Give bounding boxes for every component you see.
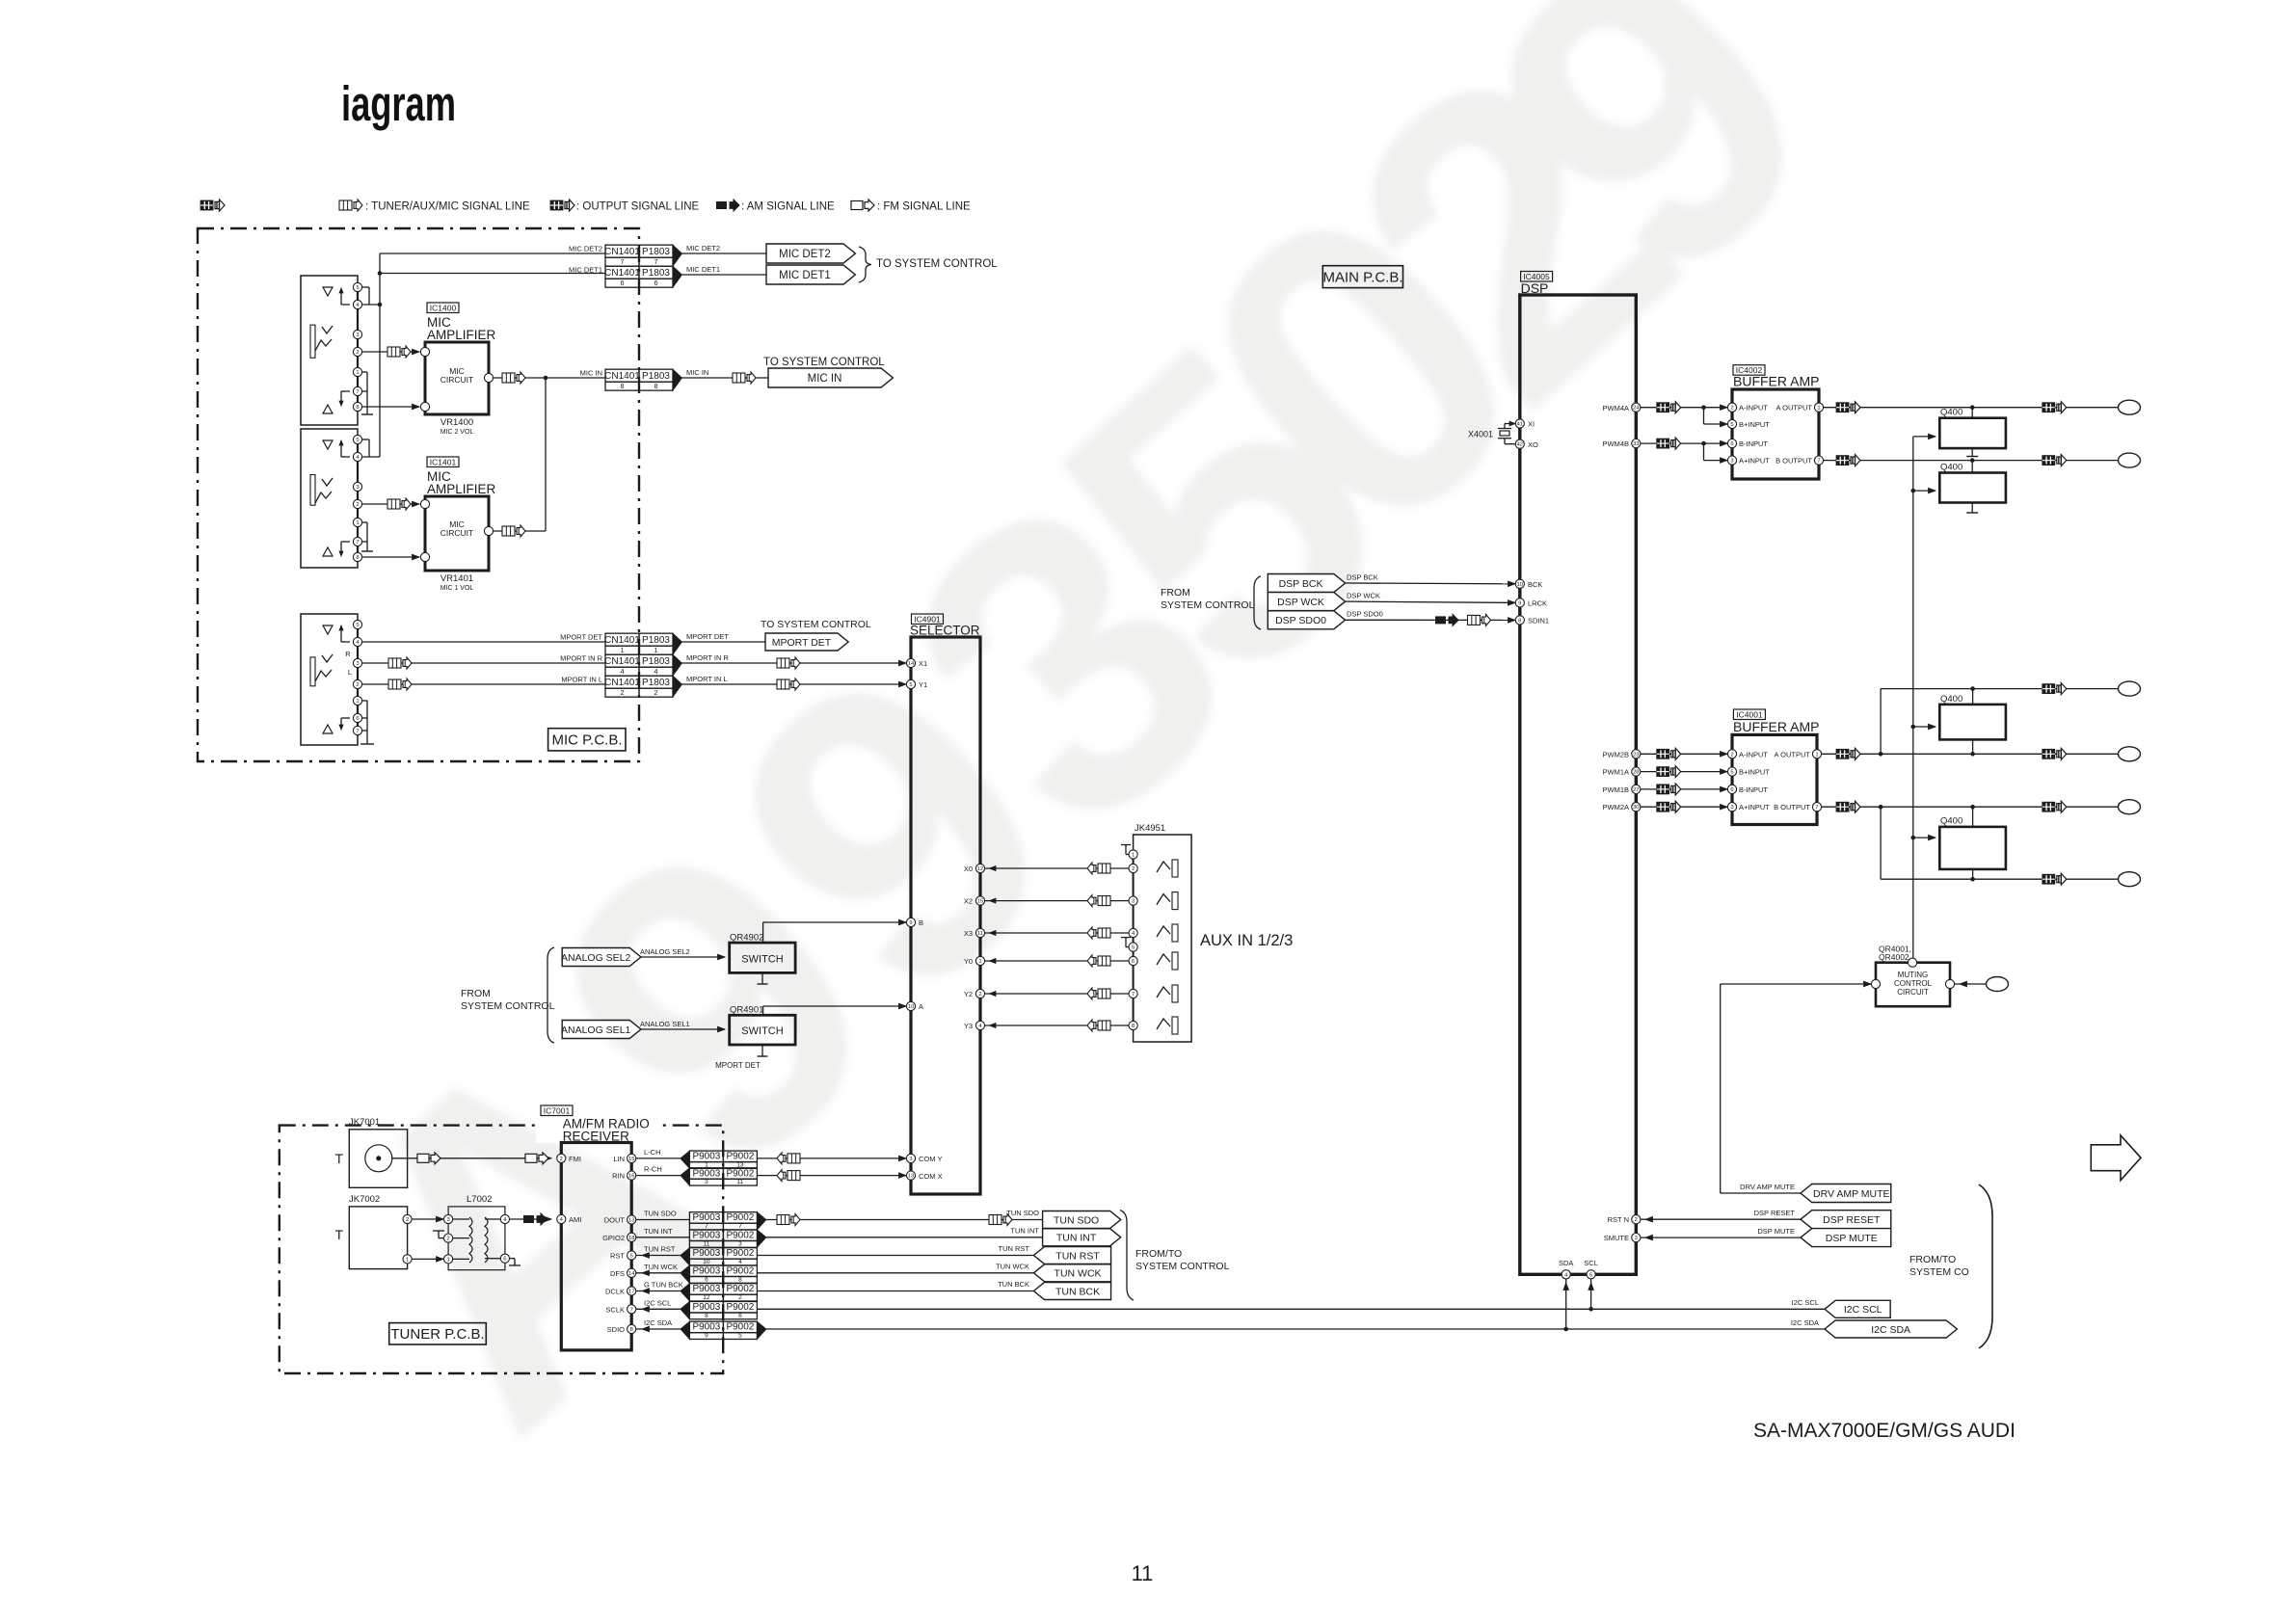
svg-text:DSP BCK: DSP BCK — [1279, 578, 1323, 590]
svg-text:2: 2 — [1730, 752, 1733, 758]
svg-text:14: 14 — [908, 661, 915, 667]
IC7001 title mask — [536, 1101, 661, 1143]
svg-text:A-INPUT: A-INPUT — [1739, 404, 1768, 412]
svg-text:DSP MUTE: DSP MUTE — [1757, 1227, 1795, 1236]
svg-text:RST: RST — [610, 1252, 625, 1261]
svg-text:MPORT DET: MPORT DET — [686, 632, 729, 641]
tag DSP RESET — [1801, 1211, 1891, 1229]
svg-text:6: 6 — [356, 716, 359, 722]
svg-text:MIC DET1: MIC DET1 — [779, 270, 831, 281]
DSP pin PWM1B — [1632, 785, 1641, 793]
svg-text:CIRCUIT: CIRCUIT — [1897, 988, 1929, 997]
wire I2C SDA long — [766, 1328, 1825, 1330]
svg-text:DSP SDO0: DSP SDO0 — [1275, 615, 1326, 626]
svg-text:LRCK: LRCK — [1528, 599, 1547, 608]
svg-text:41: 41 — [1517, 422, 1523, 428]
svg-text:P1803: P1803 — [642, 656, 670, 667]
svg-text:1: 1 — [1817, 406, 1820, 412]
svg-text:6: 6 — [621, 279, 625, 287]
svg-text:FMI: FMI — [569, 1155, 581, 1163]
svg-text:PWM2A: PWM2A — [1602, 803, 1629, 811]
connector CN1401/P1803 MPORT DET — [605, 633, 639, 646]
tag MIC DET1 — [766, 265, 855, 284]
svg-text:1: 1 — [356, 370, 359, 376]
wire I2C SCL long — [757, 1308, 1825, 1310]
wire ANALOG SEL2 — [641, 956, 725, 958]
svg-text:DSP RESET: DSP RESET — [1754, 1209, 1796, 1217]
tag DRV AMP MUTE — [1801, 1184, 1891, 1203]
terminal oval lower 3 — [2119, 800, 2141, 814]
svg-text:TUN BCK: TUN BCK — [998, 1280, 1029, 1289]
terminal oval upper A — [2119, 400, 2141, 414]
IC4001 pin B OUTPUT — [1812, 803, 1821, 811]
tag MIC DET2 — [766, 244, 855, 263]
svg-text:Y2: Y2 — [964, 990, 973, 998]
svg-text:CONTROL: CONTROL — [1894, 979, 1933, 988]
svg-text:4: 4 — [738, 1259, 742, 1265]
wire TUN WCK to tag — [757, 1272, 1033, 1274]
connector P9003/P9002 L-CH — [689, 1151, 723, 1162]
svg-text:MIC DET1: MIC DET1 — [686, 265, 720, 274]
svg-text:Y0: Y0 — [964, 957, 973, 966]
svg-text:Y3: Y3 — [964, 1022, 973, 1030]
Q400 block2 ground — [1971, 503, 1973, 514]
svg-text:X3: X3 — [964, 929, 973, 938]
svg-text:R: R — [345, 650, 351, 658]
svg-text:5: 5 — [1730, 770, 1733, 776]
svg-text:10: 10 — [703, 1259, 710, 1265]
svg-text:SMUTE: SMUTE — [1604, 1234, 1629, 1242]
DSP pin PWM4A — [1632, 403, 1641, 412]
svg-text:TUN SDO: TUN SDO — [644, 1210, 677, 1218]
svg-text:AUX IN 1/2/3: AUX IN 1/2/3 — [1200, 932, 1293, 949]
svg-text:XI: XI — [1528, 420, 1535, 429]
svg-text:SYSTEM CONTROL: SYSTEM CONTROL — [461, 1000, 555, 1012]
svg-text:ANALOG SEL2: ANALOG SEL2 — [561, 952, 631, 964]
svg-text:P9003: P9003 — [692, 1168, 720, 1179]
MIC P.C.B. dashed boundary — [198, 228, 639, 761]
svg-text:FROM/TO: FROM/TO — [1135, 1248, 1182, 1260]
svg-text:A: A — [919, 1002, 923, 1011]
svg-text:TUN INT: TUN INT — [1010, 1227, 1039, 1236]
svg-text:CN1401: CN1401 — [604, 678, 640, 688]
svg-text:5: 5 — [909, 682, 912, 688]
wire MPORT IN L from jack — [362, 683, 605, 685]
wire SDA to I2C SDA line — [1565, 1279, 1567, 1329]
svg-text:7: 7 — [630, 1307, 633, 1313]
svg-text:1: 1 — [356, 699, 359, 705]
IC4002 pin B+INPUT — [1727, 419, 1736, 428]
svg-text:14: 14 — [628, 1271, 635, 1277]
svg-text:AMPLIFIER: AMPLIFIER — [427, 482, 496, 496]
svg-text:7: 7 — [654, 257, 658, 266]
svg-text:2: 2 — [1730, 406, 1733, 412]
svg-text:CN1401: CN1401 — [604, 247, 640, 257]
Q400 block4 input — [1911, 836, 1916, 840]
muting right oval terminal — [1987, 977, 2009, 992]
svg-text:MUTING: MUTING — [1898, 971, 1929, 979]
svg-text:TUN RST: TUN RST — [999, 1244, 1030, 1253]
svg-text:P9003: P9003 — [692, 1248, 720, 1259]
wire A OUTPUT upper — [1824, 407, 2119, 409]
svg-text:IC7001: IC7001 — [544, 1106, 571, 1116]
TUNER P.C.B. label — [389, 1323, 487, 1344]
svg-text:B+INPUT: B+INPUT — [1739, 768, 1770, 777]
wire R-CH pin to table — [636, 1175, 681, 1177]
wire MPORT IN R from jack — [362, 662, 605, 664]
svg-text:15: 15 — [977, 899, 983, 905]
svg-text:FROM: FROM — [461, 988, 491, 999]
svg-text:IC4001: IC4001 — [1736, 710, 1763, 720]
IC4001 BUFFER AMP block — [1732, 734, 1817, 824]
svg-text:I2C SDA: I2C SDA — [1791, 1318, 1819, 1327]
svg-text:MPORT DET: MPORT DET — [715, 1061, 761, 1070]
svg-text:AMI: AMI — [569, 1215, 581, 1224]
svg-text:6: 6 — [705, 1276, 708, 1283]
svg-text:A OUTPUT: A OUTPUT — [1775, 404, 1812, 412]
svg-text:L: L — [348, 668, 352, 677]
svg-text:A OUTPUT: A OUTPUT — [1774, 750, 1810, 758]
svg-text:T: T — [334, 1151, 343, 1166]
wire TUN BCK to tag — [757, 1290, 1033, 1292]
svg-text:1: 1 — [1132, 853, 1135, 859]
IC7001 pin DOUT — [627, 1215, 636, 1224]
svg-text:IC1400: IC1400 — [430, 304, 457, 313]
IC4002 pin A+INPUT — [1727, 456, 1736, 465]
selector pin COM X — [906, 1171, 915, 1180]
wire Y0 to aux jack — [985, 960, 1133, 962]
wire Y3 to aux jack — [985, 1024, 1133, 1026]
svg-text:28: 28 — [1633, 770, 1639, 776]
svg-text:P9002: P9002 — [726, 1265, 754, 1276]
svg-text:PWM2B: PWM2B — [1602, 750, 1629, 758]
QR4901 ground — [761, 1045, 763, 1056]
svg-text:CN1401: CN1401 — [604, 635, 640, 646]
MIC P.C.B. label — [548, 729, 626, 751]
DSP pin PWM1A — [1632, 767, 1641, 776]
IC4901 SELECTOR block — [911, 637, 980, 1194]
svg-text:P9002: P9002 — [726, 1302, 754, 1313]
svg-text:IC1401: IC1401 — [430, 458, 457, 467]
watermark A9935029 — [245, 0, 1898, 1517]
svg-text:2: 2 — [621, 688, 625, 697]
svg-text:A+INPUT: A+INPUT — [1739, 803, 1770, 811]
svg-text:27: 27 — [1633, 787, 1639, 793]
svg-text:MPORT IN R: MPORT IN R — [686, 653, 729, 662]
connector CN1401/P1803 MPORT IN R — [605, 654, 639, 667]
selector pin X2 — [975, 896, 984, 905]
DSP pin SMUTE — [1632, 1234, 1641, 1242]
svg-text:JK7001: JK7001 — [349, 1117, 380, 1128]
svg-text:TO SYSTEM CONTROL: TO SYSTEM CONTROL — [763, 357, 885, 368]
svg-text:10: 10 — [908, 1004, 914, 1010]
tag DSP MUTE — [1801, 1229, 1891, 1247]
svg-text:5: 5 — [1589, 1272, 1592, 1278]
Q400 block3 input — [1911, 725, 1916, 730]
connector CN1401/P1803 MIC DET2 — [605, 245, 639, 257]
svg-text:9: 9 — [705, 1332, 708, 1339]
svg-text:SDA: SDA — [1559, 1259, 1573, 1267]
svg-text:MIC DET1: MIC DET1 — [569, 266, 602, 275]
svg-text:SYSTEM CONTROL: SYSTEM CONTROL — [1161, 599, 1255, 611]
svg-text:1: 1 — [978, 959, 981, 965]
svg-text:Q400: Q400 — [1940, 408, 1962, 418]
tag I2C SCL — [1825, 1300, 1890, 1317]
svg-text:iagram: iagram — [341, 76, 456, 131]
svg-text:DRV AMP MUTE: DRV AMP MUTE — [1813, 1188, 1890, 1200]
svg-text:2: 2 — [560, 1157, 563, 1162]
svg-text:6: 6 — [1132, 959, 1135, 965]
svg-text:P1803: P1803 — [642, 268, 670, 279]
legend AM signal line — [716, 200, 739, 211]
svg-text:11: 11 — [1132, 1561, 1154, 1585]
svg-text:FROM/TO: FROM/TO — [1909, 1254, 1956, 1265]
svg-text:TUN RST: TUN RST — [644, 1245, 676, 1254]
svg-text:33: 33 — [1633, 441, 1639, 447]
svg-text:QR4002: QR4002 — [1879, 952, 1909, 962]
svg-text:42: 42 — [1517, 442, 1523, 448]
svg-text:SYSTEM CONTROL: SYSTEM CONTROL — [1135, 1261, 1230, 1272]
IC4002 BUFFER AMP block — [1732, 389, 1819, 479]
wire A OUTPUT lower — [1822, 753, 2119, 755]
svg-text:A-INPUT: A-INPUT — [1739, 750, 1768, 758]
bracket right tags — [1979, 1184, 1992, 1348]
svg-text:P9002: P9002 — [726, 1212, 754, 1223]
svg-text:DFS: DFS — [610, 1269, 625, 1278]
wire jack2 pin8 to IC1401 — [362, 556, 419, 558]
svg-text:8: 8 — [654, 382, 658, 390]
svg-text:TUN SDO: TUN SDO — [1006, 1209, 1039, 1217]
svg-text:4: 4 — [654, 667, 658, 676]
svg-text:7: 7 — [356, 389, 359, 395]
selector pin Y3 — [975, 1021, 984, 1029]
tag TUN BCK — [1033, 1283, 1110, 1300]
svg-text:3: 3 — [446, 1217, 449, 1223]
svg-text:3: 3 — [1730, 805, 1733, 811]
svg-text:5: 5 — [1730, 422, 1733, 428]
DSP pin LRCK — [1515, 599, 1524, 607]
svg-text:7: 7 — [1132, 992, 1135, 998]
MUTING CONTROL CIRCUIT block — [1876, 963, 1950, 1006]
wire muting left input — [1721, 983, 1871, 985]
svg-text:13: 13 — [628, 1218, 634, 1224]
IC4001 pin A+INPUT — [1727, 803, 1736, 811]
legend tuner/aux/mic signal line — [339, 200, 362, 211]
wire FM antenna to FMI — [392, 1157, 551, 1159]
QR4902 ground — [761, 972, 763, 984]
L7002 pin6 ground — [510, 1258, 515, 1260]
svg-text:23: 23 — [1633, 752, 1639, 758]
svg-text:12: 12 — [703, 1294, 710, 1301]
svg-text:2: 2 — [1635, 1217, 1638, 1223]
svg-text:8: 8 — [738, 1276, 742, 1283]
svg-text:LIN: LIN — [613, 1155, 625, 1163]
svg-text:PWM4A: PWM4A — [1602, 404, 1629, 412]
wire L-CH pin to table — [636, 1157, 681, 1159]
svg-text:SDIO: SDIO — [607, 1325, 626, 1334]
svg-text:P9002: P9002 — [726, 1284, 754, 1294]
IC4002 pin A-INPUT — [1727, 403, 1736, 412]
svg-text:JK7002: JK7002 — [349, 1194, 380, 1205]
IC7001 pin AMI — [557, 1214, 566, 1223]
connector P9003/P9002 TUN RST — [689, 1248, 723, 1260]
wire PWM to IC4001 — [1641, 788, 1727, 790]
terminal oval lower 2 — [2119, 747, 2141, 761]
svg-text:P9003: P9003 — [692, 1152, 720, 1162]
mic jack J1 ground — [362, 371, 367, 373]
svg-text:P9002: P9002 — [726, 1248, 754, 1259]
legend output signal line — [550, 200, 574, 211]
svg-text:SWITCH: SWITCH — [741, 1025, 783, 1037]
svg-text:TUN SDO: TUN SDO — [1054, 1214, 1099, 1226]
svg-text:R-CH: R-CH — [644, 1165, 662, 1174]
svg-text:6: 6 — [1730, 441, 1733, 447]
connector CN1401/P1803 MPORT IN L — [605, 676, 639, 688]
svg-text:3: 3 — [356, 485, 359, 491]
mic jack J2 ground — [362, 521, 367, 523]
svg-text:P9003: P9003 — [692, 1284, 720, 1294]
svg-text:MPORT IN L: MPORT IN L — [686, 675, 728, 683]
selector pin B — [906, 918, 915, 926]
tag I2C SDA — [1825, 1320, 1957, 1338]
svg-text:TUN INT: TUN INT — [1056, 1233, 1097, 1244]
svg-text:TUN WCK: TUN WCK — [1055, 1268, 1102, 1280]
IC7001 pin FMI — [557, 1154, 566, 1162]
svg-text:8: 8 — [356, 555, 359, 561]
terminal oval lower 4 — [2119, 872, 2141, 887]
svg-text:I2C SCL: I2C SCL — [1844, 1304, 1882, 1316]
selector pin A — [906, 1001, 915, 1010]
DSP pin PWM4B — [1632, 439, 1641, 448]
DSP pin SDIN1 — [1515, 616, 1524, 625]
svg-text:2: 2 — [406, 1217, 409, 1223]
svg-text:1: 1 — [1815, 752, 1818, 758]
svg-text:GPIO2: GPIO2 — [602, 1234, 625, 1242]
svg-text:30: 30 — [1633, 805, 1639, 811]
svg-text:1: 1 — [356, 520, 359, 526]
svg-text:MIC IN: MIC IN — [808, 373, 842, 385]
svg-text:Q400: Q400 — [1940, 463, 1962, 473]
svg-text:CIRCUIT: CIRCUIT — [441, 528, 473, 538]
svg-text:JK4951: JK4951 — [1135, 823, 1165, 834]
svg-text:TUN WCK: TUN WCK — [644, 1263, 678, 1271]
connector P9003/P9002 G TUN BCK — [689, 1284, 723, 1295]
wire jack2 pin2 to IC1401 — [362, 503, 419, 505]
tag TUN WCK — [1033, 1264, 1110, 1282]
wire QR4902 to selector B — [762, 922, 764, 943]
DSP pin XO — [1515, 439, 1524, 448]
svg-text:MIC IN: MIC IN — [686, 368, 708, 377]
svg-text:X0: X0 — [964, 865, 973, 873]
IC4002 pin B-INPUT — [1727, 439, 1736, 448]
wire Y2 to aux jack — [985, 993, 1133, 995]
selector pin Y0 — [975, 956, 984, 965]
IC7001 block — [561, 1143, 631, 1350]
wire DSP SDO0 — [1346, 619, 1515, 621]
wire jack1 pin8 to IC1400 — [362, 406, 419, 408]
tag DSP BCK — [1268, 574, 1345, 593]
wire DSP WCK — [1346, 601, 1515, 602]
connector P9003/P9002 I2C SDA — [689, 1321, 723, 1333]
IC4002 pin A OUTPUT — [1814, 403, 1823, 412]
svg-text:8: 8 — [621, 382, 625, 390]
wire PWM to IC4001 — [1641, 753, 1727, 755]
wire DSP RESET — [1641, 1218, 1801, 1220]
svg-text:DCLK: DCLK — [605, 1288, 625, 1296]
connector P9003/P9002 TUN SDO — [689, 1212, 723, 1224]
tag TUN SDO — [1043, 1211, 1121, 1229]
wire IC1401 output — [494, 530, 546, 532]
wire R-CH to COM X — [757, 1175, 906, 1177]
svg-text:ANALOG SEL2: ANALOG SEL2 — [640, 947, 690, 956]
svg-text:P9003: P9003 — [692, 1322, 720, 1333]
svg-text:MPORT IN L: MPORT IN L — [561, 676, 602, 684]
wire bottom aux line lower section — [1880, 807, 1882, 879]
svg-text:6: 6 — [654, 279, 658, 287]
wire B OUTPUT upper — [1824, 460, 2119, 462]
connector P9003/P9002 I2C SCL — [689, 1301, 723, 1313]
wire TUN RST to tag — [757, 1255, 1033, 1257]
connector P9003/P9002 R-CH — [689, 1168, 723, 1180]
svg-text:8: 8 — [356, 405, 359, 411]
svg-text:CN1401: CN1401 — [604, 656, 640, 667]
IC4001 pin B+INPUT — [1727, 767, 1736, 776]
svg-text:P9002: P9002 — [726, 1168, 754, 1179]
tag DSP WCK — [1268, 593, 1345, 611]
selector pin X0 — [975, 864, 984, 872]
svg-text:2: 2 — [738, 1294, 742, 1301]
svg-text:15: 15 — [628, 1157, 634, 1162]
svg-text:7: 7 — [705, 1223, 708, 1230]
selector pin COM Y — [906, 1154, 915, 1162]
bracket dsp tags — [1254, 576, 1261, 629]
svg-text:SWITCH: SWITCH — [741, 954, 783, 966]
svg-text:MIC 1 VOL: MIC 1 VOL — [441, 585, 474, 592]
connector P9003/P9002 TUN WCK — [689, 1265, 723, 1277]
svg-text:MPORT DET: MPORT DET — [560, 633, 602, 642]
connector P9003/P9002 TUN INT — [689, 1230, 723, 1241]
svg-text:XO: XO — [1528, 440, 1538, 449]
svg-text:24: 24 — [1633, 406, 1640, 412]
svg-text:8: 8 — [705, 1313, 708, 1319]
svg-text:11: 11 — [704, 1240, 710, 1247]
svg-text:SYSTEM CO: SYSTEM CO — [1909, 1266, 1969, 1278]
IC4001 pin A OUTPUT — [1812, 750, 1821, 758]
wire TUN WCK pin to table — [636, 1272, 681, 1274]
svg-text:MPORT DET: MPORT DET — [772, 637, 832, 649]
mic jack J2 (MIC1) — [301, 429, 358, 568]
svg-text:17: 17 — [628, 1290, 634, 1295]
bracket switches — [547, 947, 554, 1043]
svg-text:P9003: P9003 — [692, 1212, 720, 1223]
svg-text:A+INPUT: A+INPUT — [1739, 457, 1770, 466]
svg-text:I2C SDA: I2C SDA — [644, 1318, 672, 1327]
tag TUN INT — [1043, 1229, 1121, 1246]
svg-text:SCL: SCL — [1584, 1259, 1598, 1267]
svg-text:P9002: P9002 — [726, 1322, 754, 1333]
IC4005 label — [1521, 272, 1553, 282]
IC7001 pin LIN — [627, 1154, 636, 1162]
svg-text:3: 3 — [909, 1157, 912, 1162]
JK4951 aux jack — [1134, 835, 1192, 1042]
IC4002 pin B OUTPUT — [1814, 456, 1823, 465]
svg-text:1: 1 — [654, 646, 658, 654]
svg-text:COM Y: COM Y — [919, 1155, 942, 1163]
wire QR4901 to selector A — [762, 1006, 764, 1015]
svg-text:5: 5 — [738, 1332, 742, 1339]
svg-text:2: 2 — [446, 1237, 449, 1242]
tag MIC IN — [768, 368, 893, 387]
